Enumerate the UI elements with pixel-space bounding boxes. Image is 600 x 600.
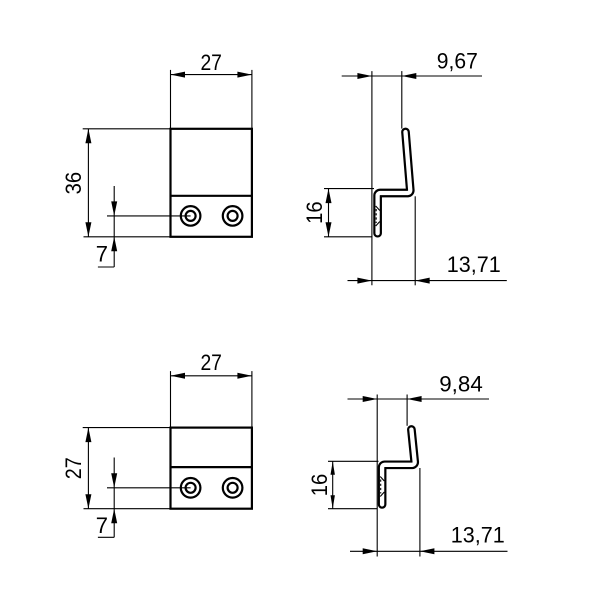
part1 profile extension line back face bbox=[371, 71, 373, 285]
part1 profile extension line hook outer face bbox=[414, 196, 416, 285]
dim 27 width part2: extension lines bbox=[171, 371, 252, 428]
dim 27 height part2: label bbox=[61, 457, 86, 479]
part2 profile lance detail bbox=[380, 477, 384, 497]
svg-text:27: 27 bbox=[61, 457, 86, 479]
part1 front outline bbox=[171, 129, 252, 237]
part1 hole H2 bbox=[223, 206, 243, 226]
part1 hole H1 bbox=[181, 206, 201, 226]
dim 27 width part2: dimension line with arrows bbox=[171, 373, 252, 379]
dim 36 height part1: extension lines bbox=[83, 129, 171, 237]
dim 7 hole position part2: label bbox=[96, 513, 108, 538]
dim 13,71 part2: label bbox=[451, 522, 505, 547]
dim 7 hole position part1: hole centre leader bbox=[107, 215, 191, 217]
dim 9,67 part1: dimension line with arrows bbox=[342, 73, 482, 79]
dim 16 part2: label bbox=[307, 474, 332, 497]
dim 16 part1: label bbox=[302, 201, 327, 224]
svg-text:9,67: 9,67 bbox=[437, 49, 478, 74]
dim 13,71 part1: dimension line with arrows bbox=[348, 278, 507, 284]
dim 16 part1: dimension line with arrows bbox=[326, 189, 332, 237]
dim 13,71 part2: dimension line with arrows bbox=[350, 548, 508, 554]
svg-text:27: 27 bbox=[200, 350, 222, 375]
dim 16 part2: extension lines bbox=[328, 461, 379, 508]
dim 27 width part2: label bbox=[200, 350, 222, 375]
dim 36 height part1: dimension line with arrows bbox=[85, 129, 91, 237]
dim 16 part2: dimension line with arrows bbox=[331, 461, 335, 508]
dim 27 width part1: dimension line with arrows bbox=[171, 72, 252, 78]
dim 7 hole position part2: hole centre leader bbox=[107, 487, 191, 489]
part1 step line bbox=[171, 195, 252, 197]
svg-text:7: 7 bbox=[96, 513, 108, 538]
part2 profile extension line hook outer face bbox=[419, 468, 421, 557]
part1 profile lance detail bbox=[376, 206, 380, 226]
svg-text:9,84: 9,84 bbox=[439, 372, 483, 397]
dim 13,71 part1: label bbox=[447, 252, 501, 277]
part1 profile cross-section outline bbox=[378, 132, 411, 233]
svg-text:36: 36 bbox=[61, 172, 86, 195]
dim 7 hole position part1: label bbox=[96, 242, 108, 267]
part2 step line bbox=[171, 466, 252, 468]
dim 7 hole position part2: dimension line with arrows bbox=[98, 458, 117, 538]
svg-text:7: 7 bbox=[96, 242, 108, 267]
dim 9,84 part2: label bbox=[439, 372, 483, 397]
dim 27 width part1: extension lines bbox=[171, 70, 252, 129]
part2 profile cross-section outline bbox=[382, 430, 415, 505]
part1 profile extension line hook inner face bbox=[401, 71, 403, 129]
dim 16 part1: extension lines bbox=[324, 189, 374, 237]
part2 hole H2 bbox=[223, 478, 243, 498]
svg-text:13,71: 13,71 bbox=[447, 252, 501, 277]
dim 7 hole position part1: dimension line with arrows bbox=[98, 186, 117, 267]
svg-text:16: 16 bbox=[307, 474, 332, 497]
dim 27 height part2: dimension line with arrows bbox=[85, 428, 91, 509]
part2 front outline bbox=[171, 428, 252, 509]
part2 hole H1 bbox=[181, 478, 201, 498]
part2 profile extension line hook inner face bbox=[406, 395, 408, 426]
dim 36 height part1: label bbox=[61, 172, 86, 195]
part2 profile extension line back face bbox=[376, 395, 378, 557]
dim 27 height part2: extension lines bbox=[83, 428, 171, 509]
svg-text:27: 27 bbox=[200, 50, 222, 75]
dim 9,67 part1: label bbox=[437, 49, 478, 74]
svg-text:16: 16 bbox=[302, 201, 327, 224]
dim 27 width part1: label bbox=[200, 50, 222, 75]
svg-text:13,71: 13,71 bbox=[451, 522, 505, 547]
dim 9,84 part2: dimension line with arrows bbox=[348, 396, 490, 402]
